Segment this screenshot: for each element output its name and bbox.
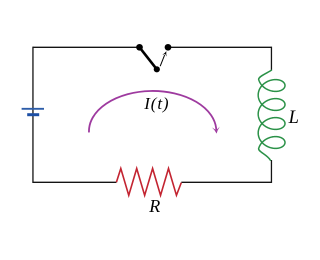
wire bottom-left segment: [33, 181, 116, 183]
svg-text:R: R: [148, 196, 160, 216]
svg-text:L: L: [288, 108, 299, 128]
switch S1 left terminal dot: [136, 44, 143, 51]
current arrow head: [212, 127, 220, 134]
wire right lower segment: [270, 160, 272, 183]
switch S1 right terminal dot: [165, 44, 172, 51]
current direction arc I(t): [89, 91, 216, 132]
switch S1 pivot dot: [154, 66, 160, 72]
wire top-left segment: [33, 46, 140, 48]
switch S1 motion arrow shaft: [160, 55, 164, 66]
svg-text:I(t): I(t): [143, 94, 169, 113]
wire top-right segment: [168, 46, 271, 48]
switch S1 motion arrow head: [162, 51, 166, 57]
battery B1 bottom plate (short): [27, 113, 39, 116]
battery B1 top plate (long): [22, 108, 44, 110]
wire left: [32, 47, 34, 183]
inductor L coil: [258, 70, 285, 160]
resistor R zigzag: [116, 169, 181, 196]
wire bottom-right segment: [181, 181, 271, 183]
wire right upper segment: [270, 47, 272, 71]
switch S1 blade: [140, 47, 157, 69]
